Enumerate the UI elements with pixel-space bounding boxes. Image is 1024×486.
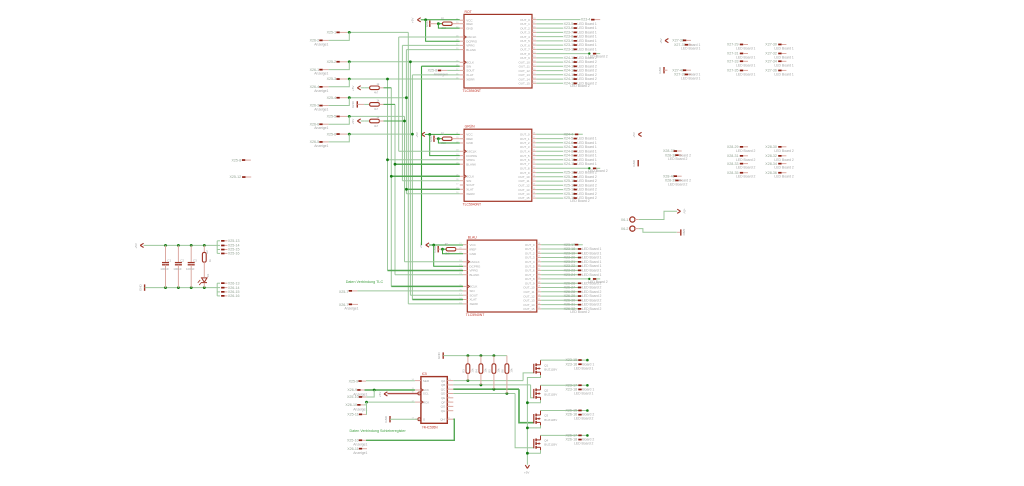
U2 pin VCC xyxy=(460,133,464,135)
U3 pin XLAT xyxy=(463,299,467,301)
svg-text:X25-10: X25-10 xyxy=(347,395,359,399)
svg-text:X25-8: X25-8 xyxy=(232,158,242,162)
wire source join xyxy=(527,425,540,428)
U1 pin OUT_5 xyxy=(532,40,536,42)
U3 pin OUT_7 xyxy=(537,274,541,276)
svg-text:Anzeige1: Anzeige1 xyxy=(314,89,328,93)
U1 pin OUT_13 xyxy=(532,74,536,76)
bus wire x=412.4 xyxy=(411,75,413,300)
svg-text:BLAU: BLAU xyxy=(468,236,477,240)
U3 pin SIN xyxy=(463,290,467,292)
U1 pin OUT_4 xyxy=(532,36,536,38)
+5V supply arrow cluster1 xyxy=(665,39,668,43)
svg-text:GND: GND xyxy=(138,284,142,292)
IC5 pin SCK xyxy=(415,389,421,391)
U1 pin SCLK xyxy=(460,61,464,63)
svg-text:X6-2: X6-2 xyxy=(621,227,629,231)
svg-text:BLANK: BLANK xyxy=(466,162,476,166)
resistor R2 vertical xyxy=(203,244,206,247)
wire OUT_2 to X23-19 xyxy=(541,252,578,254)
wire OUT_6 to X23-10 xyxy=(536,44,563,46)
pad X6-1 xyxy=(630,217,635,222)
svg-text:VPRG: VPRG xyxy=(466,158,475,162)
IC5 pin QB xyxy=(447,384,453,386)
U1 pin OUT_3 xyxy=(532,31,536,33)
U3 pin OUT_4 xyxy=(537,261,541,263)
capacitor C3 100nF xyxy=(190,244,193,247)
connector pin X26-16 xyxy=(217,295,220,297)
+5V supply arrow xyxy=(417,18,420,22)
wire VCC junction to DCPRG xyxy=(426,20,460,41)
svg-text:LED Board 2: LED Board 2 xyxy=(574,417,594,421)
wire OUT_2 to X23-6 xyxy=(536,27,563,29)
svg-text:BLANK: BLANK xyxy=(466,48,476,52)
svg-text:GRÜN: GRÜN xyxy=(465,125,476,129)
wire X25-5 to bus xyxy=(347,115,404,117)
U1 pin GND xyxy=(460,27,464,29)
wire OUT_3 to X23-20 xyxy=(541,257,578,259)
wire OUT_12 to X26-29 xyxy=(541,295,578,297)
resistor R IREF xyxy=(442,22,452,25)
svg-text:GND: GND xyxy=(425,20,429,28)
wire X26-3 join xyxy=(329,98,350,106)
U3 pin SOUT xyxy=(463,294,467,296)
wire GND to IREF resistor xyxy=(438,248,442,250)
svg-text:X26-9: X26-9 xyxy=(347,388,357,392)
U1 pin OUT_8 xyxy=(532,53,536,55)
svg-text:R1: R1 xyxy=(441,16,445,20)
svg-text:GND: GND xyxy=(433,245,437,253)
U1 pin OUT_9 xyxy=(532,57,536,59)
wire GND junction to GND pin xyxy=(438,139,459,143)
wire OUT_3 to X23-7 xyxy=(536,31,563,33)
connector pin X25-16 xyxy=(217,252,220,254)
wire tap VPRG U1 xyxy=(402,44,459,46)
U1 pin OUT_15 xyxy=(532,82,536,84)
U1 pin XERR xyxy=(460,78,464,80)
U3 pin GSCLK xyxy=(463,261,467,263)
svg-text:Daten Verbindung TLC: Daten Verbindung TLC xyxy=(346,280,384,284)
bus wire x=421.5 xyxy=(421,66,423,245)
svg-text:SER: SER xyxy=(423,379,430,383)
U1 pin IREF xyxy=(460,23,464,25)
svg-text:Anzeige1: Anzeige1 xyxy=(314,72,328,76)
wire OUT_1 to X23-18 xyxy=(541,248,578,250)
U2 pin OUT_9 xyxy=(532,172,536,174)
U2 pin OUT_2 xyxy=(532,142,536,144)
U1 pin OUT_2 xyxy=(532,27,536,29)
IC U3 BLAU TLC5940NT body xyxy=(467,240,537,312)
bus wire x=406.4 xyxy=(405,50,407,194)
wire OUT_0 to X23-4 xyxy=(536,19,580,21)
wire X25-4 to bus xyxy=(347,97,406,99)
wire tap GSCLK U3 xyxy=(405,261,464,263)
svg-text:+5V: +5V xyxy=(632,132,636,137)
wire GND rail resistors xyxy=(443,355,507,357)
svg-text:QH: QH xyxy=(441,409,446,413)
svg-text:X26-13: X26-13 xyxy=(228,281,240,285)
svg-text:74HC595N: 74HC595N xyxy=(422,425,438,429)
U2 pin OUT_10 xyxy=(532,176,536,178)
IC5 pin RCK xyxy=(415,401,421,403)
wire comb vertical xyxy=(216,241,218,254)
IC5 pin QE xyxy=(447,397,453,399)
U2 pin SCLK xyxy=(460,175,464,177)
svg-text:Anzeige1: Anzeige1 xyxy=(344,306,358,310)
svg-text:ROT: ROT xyxy=(465,10,472,14)
svg-text:LED Board 2: LED Board 2 xyxy=(570,199,590,203)
svg-text:10k: 10k xyxy=(470,368,474,373)
svg-text:X24-11: X24-11 xyxy=(564,162,575,166)
svg-text:XERR: XERR xyxy=(466,77,475,81)
connector pin X26-15 xyxy=(217,291,220,293)
ground xyxy=(429,21,431,27)
wire QA to Q1 gate xyxy=(453,380,523,382)
wire OUT_5 to X23-9 xyxy=(536,40,563,42)
U1 pin OUT_12 xyxy=(532,70,536,72)
svg-text:LED Board 2: LED Board 2 xyxy=(736,166,756,170)
U2 pin GND xyxy=(460,142,464,144)
svg-text:LED Board 1: LED Board 1 xyxy=(736,56,756,60)
wire tap VPRG U3 xyxy=(388,270,464,272)
connector pin X25-15 xyxy=(217,249,220,251)
bus wire x=404.5 xyxy=(404,116,406,261)
svg-text:LED Board 2: LED Board 2 xyxy=(668,157,688,161)
U1 pin OUT_14 xyxy=(532,78,536,80)
ground caps rail xyxy=(144,284,146,290)
IC5 pin SER xyxy=(415,380,421,382)
wire OUT_5 to X24-9 xyxy=(536,155,563,157)
wire GND junction to GND pin xyxy=(443,249,464,254)
svg-text:X6-1: X6-1 xyxy=(621,218,629,222)
bus wire x=408.3 xyxy=(407,32,409,304)
svg-text:R5: R5 xyxy=(488,369,492,373)
U3 pin OUT_5 xyxy=(537,265,541,267)
wire X26-2 join xyxy=(329,32,350,40)
U2 pin SOUT xyxy=(460,184,464,186)
U3 pin SCLK xyxy=(463,285,467,287)
svg-text:GSCLK: GSCLK xyxy=(470,260,480,264)
svg-text:R1: R1 xyxy=(441,131,445,135)
svg-text:R2: R2 xyxy=(205,250,209,254)
ground X6 xyxy=(680,229,682,235)
svg-text:R6: R6 xyxy=(501,369,505,373)
U1 pin OUT_11 xyxy=(532,65,536,67)
wire Q2 drain to pins xyxy=(541,384,588,386)
svg-text:X25-4: X25-4 xyxy=(327,96,337,100)
IC5 pin G xyxy=(415,418,421,420)
wire X26-5 join xyxy=(329,134,350,142)
wire X25-3 to bus xyxy=(347,78,459,80)
svg-text:LED Board 1: LED Board 1 xyxy=(736,47,756,51)
ground xyxy=(356,101,358,107)
wire OUT_9 to X25-13 xyxy=(536,172,563,174)
svg-text:X25-1: X25-1 xyxy=(327,31,337,35)
wire +5V rail xyxy=(144,244,218,246)
wire tap SOUT U3 xyxy=(410,294,463,296)
svg-text:LED Board 2: LED Board 2 xyxy=(736,175,756,179)
svg-text:LED Board 2: LED Board 2 xyxy=(774,175,794,179)
ground to G pin xyxy=(389,416,391,422)
wire OUT_3 to X24-7 xyxy=(536,146,563,148)
svg-text:SCL: SCL xyxy=(423,392,429,396)
wire resistor to IREF pin xyxy=(452,23,460,25)
wire OUT_14 to X24-18 xyxy=(536,78,563,80)
U2 pin OUT_7 xyxy=(532,163,536,165)
svg-text:X25-7: X25-7 xyxy=(339,290,349,294)
resistor R4 10k pulldown xyxy=(480,354,483,357)
svg-text:10k: 10k xyxy=(483,368,487,373)
wire OUT_10 to X26-27 xyxy=(541,287,578,289)
svg-text:XLAT: XLAT xyxy=(470,298,477,302)
svg-text:BUZ11BV: BUZ11BV xyxy=(544,443,557,447)
wire tap SIN U1 xyxy=(422,65,460,67)
svg-text:OUT_15: OUT_15 xyxy=(523,307,535,311)
transistor Q1 BUZ11BV xyxy=(533,364,535,373)
bus wire x=402.4 xyxy=(401,45,403,180)
wire GND rail xyxy=(145,287,218,289)
U3 pin OUT_15 xyxy=(537,308,541,310)
wire Q3 drain to pins xyxy=(541,410,588,412)
svg-text:+5V: +5V xyxy=(134,243,138,248)
U1 pin SOUT xyxy=(460,69,464,71)
U1 pin SIN xyxy=(460,65,464,67)
resistor R6 10k pulldown xyxy=(506,356,508,364)
svg-text:OUT_15: OUT_15 xyxy=(518,196,530,200)
svg-text:TLC5940NT: TLC5940NT xyxy=(463,203,481,207)
svg-text:4k7: 4k7 xyxy=(374,107,379,111)
wire OUT_9 to X24-13 xyxy=(536,57,563,59)
+5V supply arrow bottom xyxy=(525,465,529,468)
svg-text:100nF: 100nF xyxy=(186,267,195,271)
wire OUT_11 to X24-15 xyxy=(536,65,563,67)
wire Q1 drain to pins xyxy=(541,359,588,361)
svg-text:LED Board 2: LED Board 2 xyxy=(774,149,794,153)
svg-text:LED Board 1: LED Board 1 xyxy=(774,47,794,51)
svg-text:QH': QH' xyxy=(440,417,446,421)
svg-text:X23-24: X23-24 xyxy=(564,273,576,277)
svg-text:GND: GND xyxy=(470,252,478,256)
capacitor C1 100nF xyxy=(164,244,167,247)
svg-text:SCLK: SCLK xyxy=(466,175,474,179)
svg-text:X25-9: X25-9 xyxy=(349,379,359,383)
svg-text:Anzeigen: Anzeigen xyxy=(434,72,448,76)
+5V supply arrow xyxy=(422,132,425,136)
resistor 4k7 row xyxy=(364,103,369,105)
svg-text:LED Board 2: LED Board 2 xyxy=(736,149,756,153)
svg-text:R3: R3 xyxy=(462,369,466,373)
wire GND to IREF resistor xyxy=(430,23,439,25)
wire tap XERR U2 xyxy=(406,193,459,195)
resistor R5 10k pulldown xyxy=(493,354,496,357)
svg-text:X25-3: X25-3 xyxy=(327,77,337,81)
svg-text:BUZ11BV: BUZ11BV xyxy=(544,418,557,422)
svg-text:LED Board 1: LED Board 1 xyxy=(577,48,597,52)
IC U1 ROT TLC5940NT body xyxy=(464,14,532,88)
U2 pin OUT_8 xyxy=(532,167,536,169)
wire tap VPRG U2 xyxy=(388,159,460,161)
bus wire x=387.5 xyxy=(387,79,389,271)
wire +5V to VCC xyxy=(421,19,426,21)
svg-text:10k: 10k xyxy=(509,368,513,373)
U3 pin IREF xyxy=(463,248,467,250)
svg-text:GND: GND xyxy=(632,159,636,167)
svg-text:GND: GND xyxy=(682,229,686,237)
svg-text:+5V: +5V xyxy=(351,119,355,124)
svg-text:+5V: +5V xyxy=(378,392,382,397)
U3 pin VCC xyxy=(463,244,467,246)
+5V supply arrow caps rail xyxy=(140,243,143,247)
wire tap GSCLK U1 xyxy=(399,36,460,38)
svg-text:Anzeige1: Anzeige1 xyxy=(314,144,328,148)
svg-text:X25-5: X25-5 xyxy=(327,115,337,119)
LED D1 xyxy=(203,262,205,277)
wire OUT_2 to X24-6 xyxy=(536,142,563,144)
IC5 pin QD xyxy=(447,393,453,395)
svg-text:OUT_15: OUT_15 xyxy=(518,82,530,86)
svg-text:R4: R4 xyxy=(475,369,479,373)
svg-text:X25-6: X25-6 xyxy=(327,132,337,136)
U1 pin OUT_6 xyxy=(532,44,536,46)
U2 pin OUT_0 xyxy=(532,133,536,135)
svg-text:X25-13: X25-13 xyxy=(228,239,240,243)
wire X26-4 join xyxy=(329,79,350,87)
IC5 pin SCL xyxy=(415,392,421,394)
capacitor C2 100nF xyxy=(177,244,180,247)
svg-text:LED Board 2: LED Board 2 xyxy=(570,84,590,88)
ground xyxy=(433,136,435,142)
wire resistor to bus xyxy=(379,103,383,105)
U1 pin BLANK xyxy=(460,49,464,51)
svg-text:4k7: 4k7 xyxy=(374,124,379,128)
wire OUT_1 to X23-5 xyxy=(536,23,563,25)
U3 pin OUT_6 xyxy=(537,269,541,271)
svg-text:LED Board 2: LED Board 2 xyxy=(574,442,594,446)
svg-text:GND: GND xyxy=(351,100,355,108)
wire OUT_7 to X24-11 xyxy=(536,163,563,165)
U2 pin SIN xyxy=(460,180,464,182)
svg-text:IC5: IC5 xyxy=(422,372,427,376)
IC5 pin QA xyxy=(447,380,453,382)
U3 pin OUT_12 xyxy=(537,295,541,297)
svg-text:X27-38: X27-38 xyxy=(672,39,684,43)
+5V supply arrow X6 xyxy=(677,209,680,213)
wire +5V to VCC xyxy=(425,133,430,135)
U3 pin VPRG xyxy=(463,270,467,272)
U1 pin DCPRG xyxy=(460,40,464,42)
wire GND to IREF resistor xyxy=(434,138,438,140)
U3 pin GND xyxy=(463,253,467,255)
wire OUT_12 to X24-16 xyxy=(536,70,563,72)
U3 pin OUT_2 xyxy=(537,252,541,254)
svg-text:10k: 10k xyxy=(496,368,500,373)
wire OUT_6 to X23-23 xyxy=(541,269,578,271)
U2 pin OUT_15 xyxy=(532,197,536,199)
wire QC to Q3 gate xyxy=(453,388,519,390)
wire OUT_9 to X26-26 xyxy=(541,282,578,284)
wire OUT_12 to X25-16 xyxy=(536,184,563,186)
wire tap BLANK U3 xyxy=(395,274,463,276)
ground cluster1 xyxy=(663,67,665,73)
wire GND junction to GND pin xyxy=(438,24,459,28)
svg-text:C3: C3 xyxy=(193,258,197,262)
svg-text:XERR: XERR xyxy=(466,192,475,196)
svg-text:LED Board 1: LED Board 1 xyxy=(577,162,597,166)
svg-text:X23-11: X23-11 xyxy=(564,48,575,52)
svg-text:X25-2: X25-2 xyxy=(327,60,337,64)
svg-text:Anzeige1: Anzeige1 xyxy=(314,108,328,112)
svg-text:LED Board 1: LED Board 1 xyxy=(736,72,756,76)
wire VCC junction to DCPRG xyxy=(434,245,463,266)
svg-text:+5V: +5V xyxy=(415,132,419,137)
svg-text:C1: C1 xyxy=(167,258,171,262)
connector pin X25-14 xyxy=(217,244,220,246)
svg-text:GND: GND xyxy=(437,352,441,360)
resistor 4k7 row xyxy=(364,120,369,122)
IC5 pin QC xyxy=(447,388,453,390)
svg-text:Anzeige1: Anzeige1 xyxy=(314,42,328,46)
wire X25-2 to bus xyxy=(347,61,459,63)
svg-text:XLAT: XLAT xyxy=(466,188,473,192)
U1 pin OUT_10 xyxy=(532,61,536,63)
wire resistor to bus xyxy=(379,87,383,89)
svg-text:VCC: VCC xyxy=(470,243,477,247)
wire OUT_11 to X26-28 xyxy=(541,291,578,293)
U2 pin OUT_3 xyxy=(532,146,536,148)
svg-text:LED Board 1: LED Board 1 xyxy=(774,56,794,60)
wire comb vertical xyxy=(216,283,218,296)
IC IC5 74HC595 body xyxy=(421,377,447,424)
wire tap BLANK U2 xyxy=(395,163,460,165)
svg-text:Anzeige1: Anzeige1 xyxy=(353,451,367,455)
svg-text:LED Board 1: LED Board 1 xyxy=(681,47,701,51)
wire OUT_0 to X24-4 xyxy=(536,133,583,135)
svg-text:GND: GND xyxy=(658,66,662,74)
svg-text:LED Board 2: LED Board 2 xyxy=(774,166,794,170)
U3 pin OUT_9 xyxy=(537,282,541,284)
wire tap XLAT U2 xyxy=(406,188,459,190)
U2 pin OUT_14 xyxy=(532,193,536,195)
svg-text:X25-16: X25-16 xyxy=(228,252,240,256)
IC5 pin QH2 xyxy=(447,418,453,420)
U2 pin OUT_4 xyxy=(532,150,536,152)
wire QB to Q2 gate xyxy=(453,384,530,386)
resistor R IREF xyxy=(446,248,456,251)
U3 pin DCPRG xyxy=(463,265,467,267)
svg-text:SOUT: SOUT xyxy=(466,69,475,73)
svg-text:+5V: +5V xyxy=(351,86,355,91)
svg-text:Anzeige1: Anzeige1 xyxy=(353,407,367,411)
U3 pin OUT_8 xyxy=(537,278,541,280)
U1 pin GSCLK xyxy=(460,36,464,38)
U2 pin GSCLK xyxy=(460,150,464,152)
resistor 4k7 row xyxy=(364,87,369,89)
wire source chain to +5V xyxy=(527,375,540,465)
wire Q4 drain to pins xyxy=(541,434,588,436)
wire OUT_15 to X24-19 xyxy=(536,82,563,84)
U2 pin OUT_11 xyxy=(532,180,536,182)
IC U2 GRÜN TLC5940NT body xyxy=(464,129,532,201)
IC5 pin QF xyxy=(447,401,453,403)
+5V supply arrow xyxy=(357,119,360,123)
svg-text:+5V: +5V xyxy=(659,38,663,43)
svg-text:X25-11: X25-11 xyxy=(347,413,358,417)
svg-text:GND: GND xyxy=(384,415,388,423)
connector pin X26-13 xyxy=(217,282,220,284)
wire resistor to IREF pin xyxy=(452,138,460,140)
svg-text:LED Board 1: LED Board 1 xyxy=(582,273,602,277)
resistor R IREF xyxy=(442,137,452,140)
